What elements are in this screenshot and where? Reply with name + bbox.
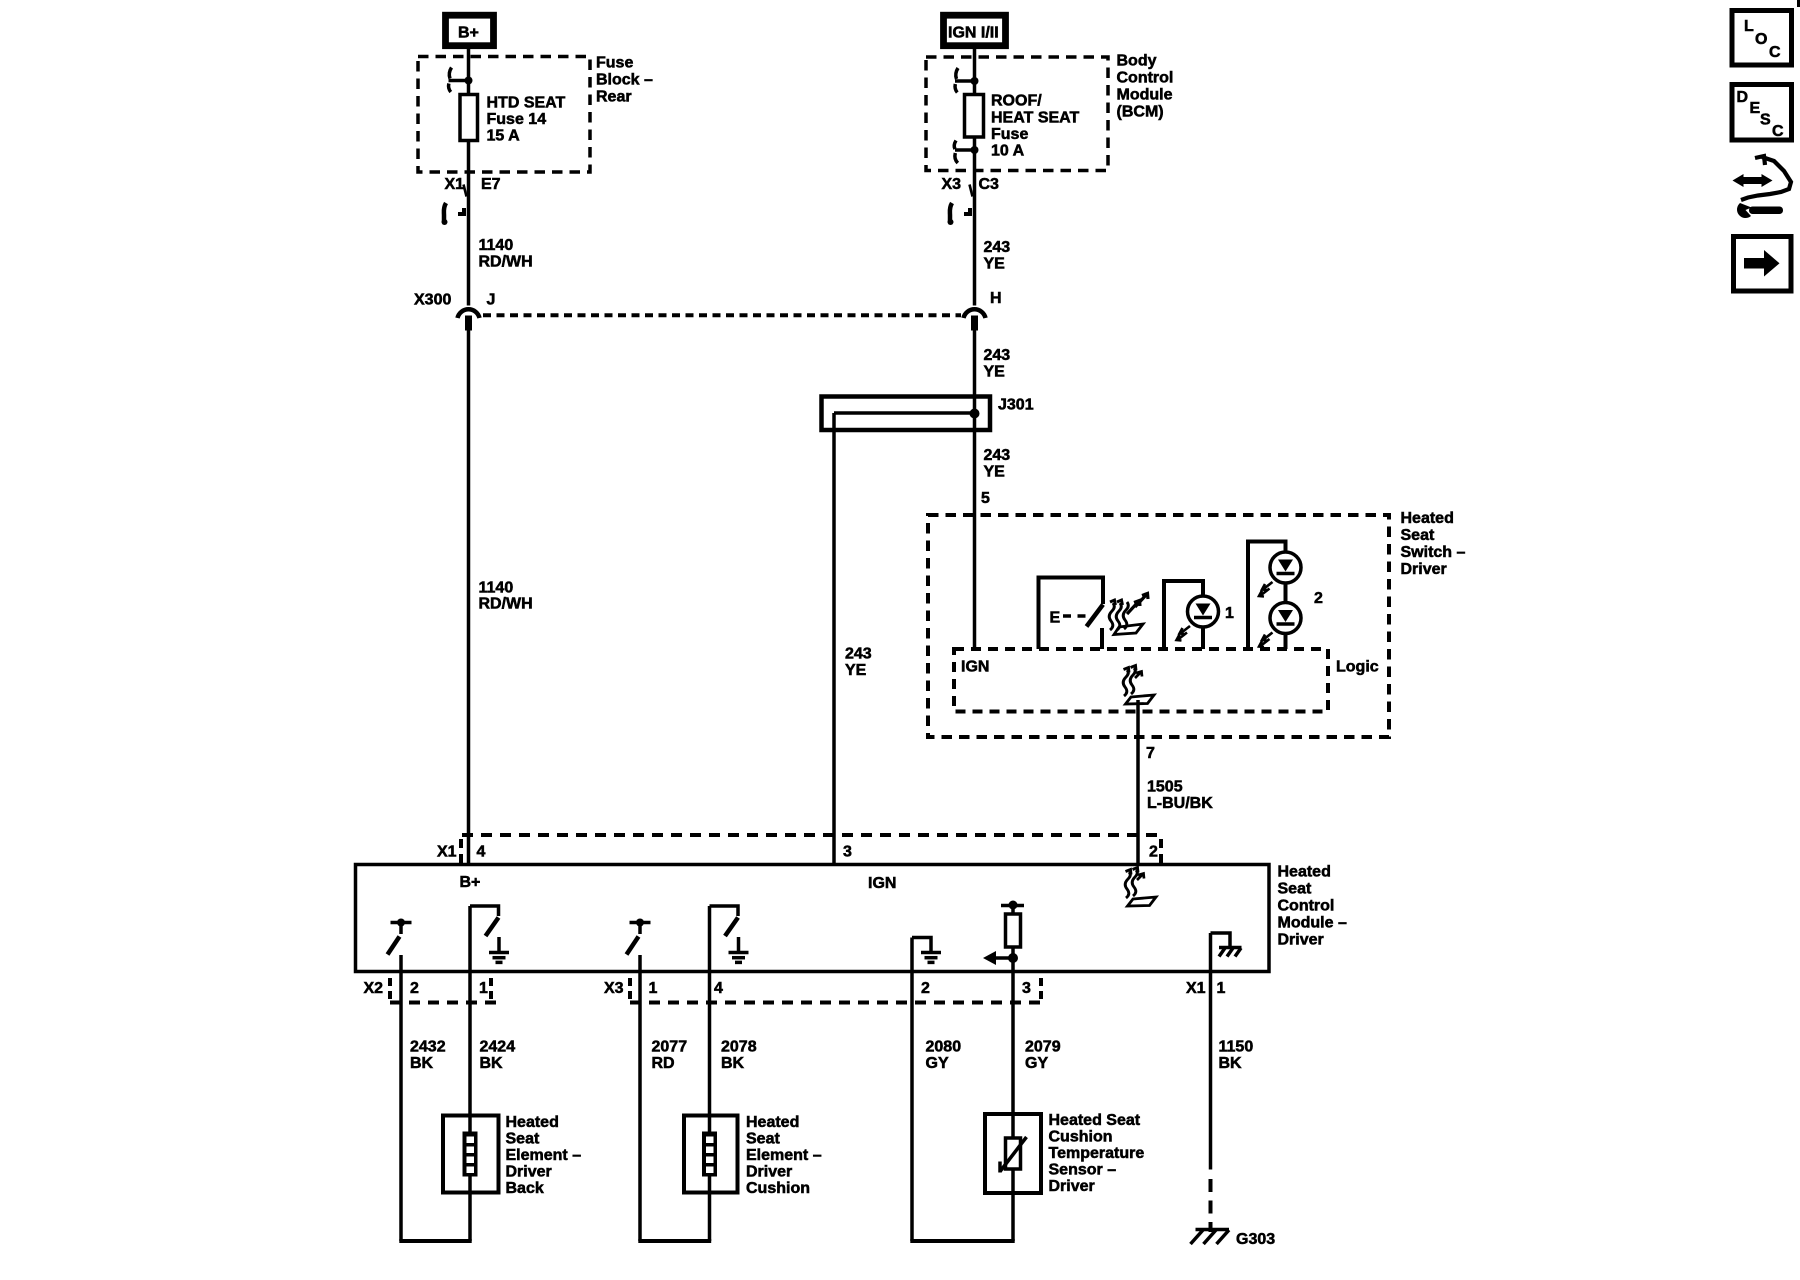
connector X3 C3 (942, 176, 1000, 225)
svg-text:1150: 1150 (1219, 1039, 1254, 1056)
wire 243 YE from H to splice J301 (975, 331, 1011, 397)
connector X2 (module bottom) dashed bracket (364, 978, 500, 1003)
fuse clip bottom (BCM) (954, 137, 978, 163)
svg-text:2080: 2080 (926, 1039, 962, 1056)
svg-text:Heated: Heated (506, 1114, 559, 1131)
page corner mark (1797, 0, 1800, 7)
svg-text:RD/WH: RD/WH (479, 254, 533, 271)
wire loop bottom (element cushion) (638, 1239, 711, 1243)
icon harness repair (arrows and wrench) (1733, 156, 1792, 218)
wire fuse to connector X1/E7 (467, 141, 471, 306)
svg-text:BK: BK (1219, 1055, 1243, 1072)
svg-text:Logic: Logic (1336, 659, 1379, 676)
heated seat control module - driver box (356, 864, 1347, 972)
svg-text:J: J (487, 292, 496, 309)
svg-text:5: 5 (981, 490, 990, 507)
wire label 1140 RD/WH (upper) (479, 237, 533, 271)
svg-text:IGN: IGN (961, 659, 989, 676)
connector X300 pin J (414, 292, 495, 331)
wire B+ to fuse block (467, 49, 471, 80)
svg-text:C: C (1769, 44, 1781, 61)
svg-text:Seat: Seat (506, 1131, 540, 1148)
svg-text:Module: Module (1117, 87, 1173, 104)
svg-text:1505: 1505 (1147, 779, 1183, 796)
thermistor sense (module pin 3) (983, 901, 1024, 972)
svg-text:E7: E7 (481, 176, 501, 193)
fuse clip top (BCM) (955, 68, 979, 93)
wire 1150 BK (module X1-1 to G303) (1211, 972, 1254, 1233)
svg-text:B+: B+ (458, 25, 479, 42)
svg-text:GY: GY (926, 1055, 949, 1072)
svg-text:B+: B+ (460, 874, 481, 891)
wire 243 YE from J301 to module pin 3 (834, 413, 872, 865)
wire 2079 GY (sensor to module pin 3) (1013, 972, 1061, 1242)
wire 1505 L-BU/BK switch pin 7 to module pin 2 (1138, 700, 1213, 865)
svg-text:Driver: Driver (746, 1164, 792, 1181)
svg-text:Heated: Heated (1278, 864, 1331, 881)
wire IGN I/II to BCM (973, 49, 977, 81)
svg-text:O: O (1755, 31, 1767, 48)
wire 2077 RD (module X3-1 to element cushion) (640, 972, 687, 1242)
svg-text:2: 2 (921, 980, 930, 997)
svg-text:HEAT SEAT: HEAT SEAT (991, 110, 1080, 127)
svg-text:(BCM): (BCM) (1117, 104, 1164, 121)
heated seat element - driver back (443, 1114, 581, 1197)
svg-text:H: H (990, 290, 1002, 307)
svg-text:Temperature: Temperature (1049, 1145, 1145, 1162)
svg-text:Element –: Element – (746, 1147, 822, 1164)
svg-text:S: S (1760, 112, 1771, 129)
svg-text:Fuse 14: Fuse 14 (487, 111, 547, 128)
svg-text:4: 4 (477, 844, 486, 861)
svg-text:IGN: IGN (868, 875, 896, 892)
ground (module pin 2) (912, 938, 941, 972)
icon DESC (1732, 85, 1792, 141)
svg-text:243: 243 (984, 447, 1011, 464)
svg-text:YE: YE (845, 662, 867, 679)
svg-text:G303: G303 (1236, 1231, 1275, 1248)
svg-text:3: 3 (1022, 980, 1031, 997)
svg-text:HTD SEAT: HTD SEAT (487, 95, 566, 112)
body control module (BCM) dashed box (926, 53, 1173, 171)
svg-text:2424: 2424 (480, 1039, 516, 1056)
svg-text:C3: C3 (979, 176, 1000, 193)
connector X3 (module bottom) dashed bracket (604, 978, 1048, 1003)
wire loop bottom (sensor) (910, 1239, 1014, 1243)
svg-text:L-BU/BK: L-BU/BK (1147, 795, 1213, 812)
svg-text:YE: YE (984, 256, 1006, 273)
svg-text:1140: 1140 (479, 237, 514, 254)
svg-text:L: L (1744, 18, 1754, 35)
svg-text:2: 2 (1149, 844, 1158, 861)
svg-text:2: 2 (410, 980, 419, 997)
LED 2 indicator pair (1248, 542, 1323, 650)
switch contact (momentary) (1039, 578, 1104, 650)
svg-text:GY: GY (1025, 1055, 1048, 1072)
svg-text:Driver: Driver (1401, 561, 1447, 578)
svg-text:Fuse: Fuse (596, 55, 633, 72)
svg-text:BK: BK (480, 1055, 504, 1072)
svg-text:X1: X1 (1186, 980, 1206, 997)
wire 1140 RD/WH from X300 to module pin 4 (469, 331, 533, 865)
splice J301 (822, 397, 1034, 431)
icon LOC (1732, 11, 1792, 66)
power symbol IGN I/II (944, 15, 1006, 46)
wire BCM to connector X3/C3 (973, 150, 977, 306)
wire 243 YE from J301 to switch pin 5 (975, 397, 1011, 650)
svg-text:X1: X1 (445, 176, 465, 193)
svg-text:Fuse: Fuse (991, 126, 1028, 143)
svg-text:1: 1 (1217, 980, 1226, 997)
wire 2432 BK (module X2-2 to element back) (401, 972, 446, 1242)
harness dashed line X300 (483, 313, 961, 317)
ground G303 (1191, 1230, 1276, 1249)
driver switch (module pin X2-2) (388, 919, 412, 972)
svg-text:1: 1 (649, 980, 658, 997)
svg-text:7: 7 (1146, 745, 1155, 762)
wire 2080 GY (module pin 2 to sensor) (912, 972, 961, 1242)
svg-text:243: 243 (984, 239, 1011, 256)
svg-text:Sensor –: Sensor – (1049, 1162, 1117, 1179)
fuse block - rear dashed box (418, 55, 653, 173)
logic block (switch internal) (954, 649, 1379, 712)
svg-text:2079: 2079 (1025, 1039, 1061, 1056)
svg-text:X2: X2 (364, 980, 384, 997)
svg-text:2077: 2077 (652, 1039, 688, 1056)
svg-text:10 A: 10 A (991, 143, 1025, 160)
svg-text:D: D (1737, 89, 1749, 106)
svg-text:Seat: Seat (1401, 527, 1435, 544)
connector X1 (module top) dashed bracket (437, 835, 1161, 864)
connector X300 pin H (964, 290, 1002, 331)
svg-text:Heated Seat: Heated Seat (1049, 1112, 1141, 1129)
LED 1 indicator (1164, 581, 1234, 649)
svg-text:Heated: Heated (1401, 510, 1454, 527)
svg-text:Switch –: Switch – (1401, 544, 1466, 561)
fuse clip top (fuse block rear) (449, 68, 473, 93)
svg-text:Cushion: Cushion (746, 1180, 810, 1197)
svg-text:YE: YE (984, 364, 1006, 381)
connector X1 E7 (442, 176, 501, 225)
svg-text:RD: RD (652, 1055, 675, 1072)
svg-text:1: 1 (479, 980, 488, 997)
svg-text:3: 3 (843, 844, 852, 861)
svg-text:Driver: Driver (506, 1164, 552, 1181)
svg-text:BK: BK (410, 1055, 434, 1072)
svg-text:4: 4 (714, 980, 723, 997)
svg-text:Block –: Block – (596, 72, 653, 89)
svg-text:X1: X1 (437, 844, 457, 861)
wire 2078 BK (element cushion to module X3-4) (710, 972, 757, 1242)
svg-text:2432: 2432 (410, 1039, 446, 1056)
svg-text:IGN I/II: IGN I/II (948, 25, 999, 42)
icon next page arrow (1734, 237, 1792, 292)
svg-text:15 A: 15 A (487, 128, 521, 145)
seat heater icon (logic block) (1123, 666, 1154, 705)
fuse ROOF/HEAT SEAT 10A (965, 81, 1080, 160)
svg-text:Element –: Element – (506, 1147, 582, 1164)
driver switch to ground (module pin X3-4) (710, 906, 749, 972)
svg-text:BK: BK (721, 1055, 745, 1072)
seat heater icon (module) (1125, 868, 1156, 907)
svg-text:Driver: Driver (1049, 1178, 1095, 1195)
svg-text:Seat: Seat (1278, 881, 1312, 898)
svg-text:1140: 1140 (479, 580, 514, 597)
svg-text:C: C (1772, 123, 1784, 140)
svg-text:Seat: Seat (746, 1131, 780, 1148)
svg-text:X300: X300 (414, 292, 451, 309)
power symbol B+ (446, 15, 494, 46)
heated seat element - driver cushion (684, 1114, 822, 1197)
svg-text:Control: Control (1117, 70, 1174, 87)
svg-text:2078: 2078 (721, 1039, 757, 1056)
svg-text:Cushion: Cushion (1049, 1129, 1113, 1146)
svg-text:J301: J301 (998, 397, 1034, 414)
svg-text:YE: YE (984, 464, 1006, 481)
wire label 243 YE (upper) (984, 239, 1011, 273)
wire 2424 BK (element back to module X2-1) (470, 972, 515, 1242)
svg-text:Module –: Module – (1278, 915, 1347, 932)
svg-text:Rear: Rear (596, 89, 632, 106)
heated seat switch - driver dashed box (928, 510, 1466, 737)
svg-text:243: 243 (845, 646, 872, 663)
svg-text:Back: Back (506, 1180, 544, 1197)
heated seat cushion temperature sensor - driver (985, 1112, 1144, 1195)
svg-text:X3: X3 (604, 980, 624, 997)
svg-text:Driver: Driver (1278, 932, 1324, 949)
svg-text:Body: Body (1117, 53, 1157, 70)
connector X1 pin 1 label (module bottom) (1186, 980, 1226, 997)
svg-text:2: 2 (1314, 590, 1323, 607)
svg-text:Heated: Heated (746, 1114, 799, 1131)
chassis ground (module pin X1-1) (1211, 933, 1242, 972)
wire loop bottom (element back) (399, 1239, 471, 1243)
seat heater icon (switch) (1109, 594, 1148, 635)
svg-text:RD/WH: RD/WH (479, 596, 533, 613)
svg-text:Control: Control (1278, 898, 1335, 915)
svg-text:E: E (1750, 100, 1761, 117)
driver switch (module pin X3-1) (627, 919, 651, 972)
svg-text:1: 1 (1225, 605, 1234, 622)
fuse HTD SEAT Fuse 14 15A (460, 81, 566, 145)
svg-text:ROOF/: ROOF/ (991, 93, 1042, 110)
svg-text:E: E (1050, 610, 1061, 627)
driver switch to ground (module pin X2-1) (470, 906, 509, 972)
svg-text:X3: X3 (942, 176, 962, 193)
svg-text:243: 243 (984, 347, 1011, 364)
